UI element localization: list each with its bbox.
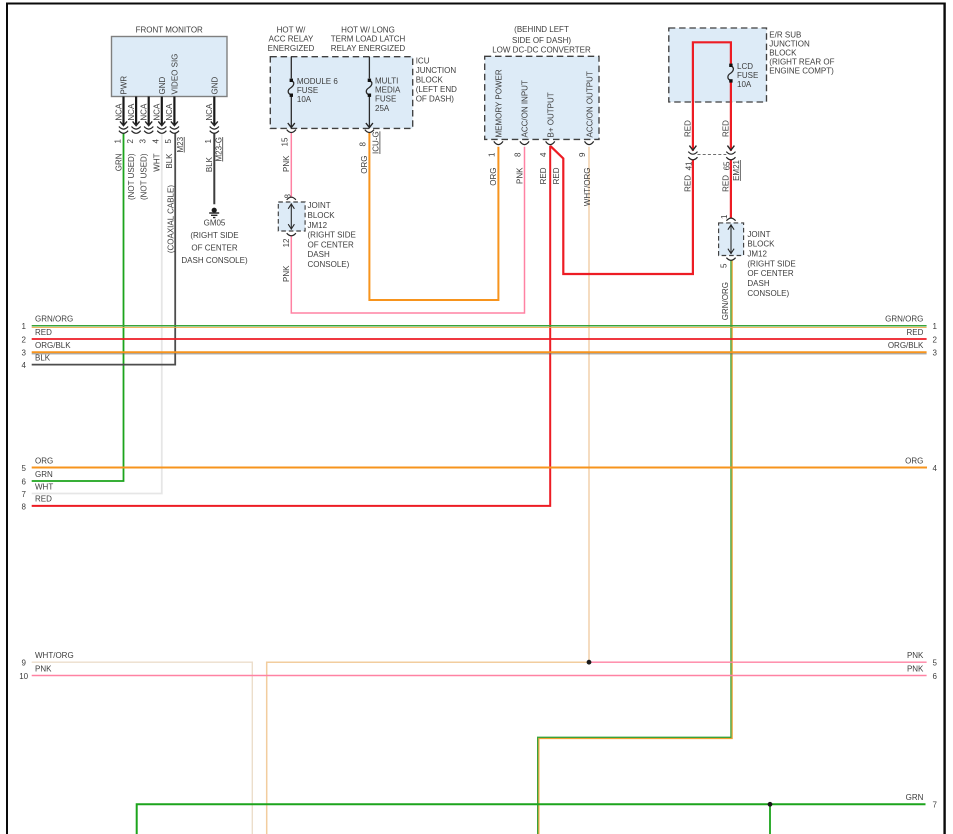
svg-text:NCA: NCA [205,103,214,121]
svg-text:FUSE: FUSE [375,95,396,104]
svg-text:4: 4 [933,464,938,473]
svg-text:WHT: WHT [153,153,162,171]
svg-text:PNK: PNK [35,664,52,673]
svg-text:10A: 10A [297,95,312,104]
svg-text:GRN: GRN [114,153,123,171]
svg-text:BLK: BLK [205,156,214,172]
svg-text:ICU-G: ICU-G [372,131,381,154]
svg-text:3: 3 [933,349,938,358]
svg-text:(BEHIND LEFT: (BEHIND LEFT [514,25,569,34]
svg-text:BLK: BLK [35,353,51,362]
svg-text:12: 12 [282,238,291,247]
svg-text:FUSE: FUSE [737,71,758,80]
svg-text:FUSE: FUSE [297,86,318,95]
svg-text:(NOT USED): (NOT USED) [127,153,136,200]
svg-text:2: 2 [21,335,26,344]
svg-text:E/R SUB: E/R SUB [769,31,801,40]
svg-text:GRN/ORG: GRN/ORG [35,315,73,324]
svg-text:BLK: BLK [165,153,174,169]
svg-text:WHT/ORG: WHT/ORG [583,168,592,207]
svg-text:ORG: ORG [35,456,53,465]
svg-text:MEMORY POWER: MEMORY POWER [495,69,504,137]
svg-text:9: 9 [578,152,587,157]
svg-text:RED: RED [35,328,52,337]
svg-text:PNK: PNK [907,664,924,673]
svg-text:OF CENTER: OF CENTER [308,240,354,249]
svg-text:PNK: PNK [907,651,924,660]
svg-text:JUNCTION: JUNCTION [416,66,457,75]
svg-text:8: 8 [283,194,292,199]
svg-text:JOINT: JOINT [308,201,331,210]
svg-text:6: 6 [21,477,26,486]
svg-text:RED: RED [684,120,693,137]
svg-text:JM12: JM12 [308,221,328,230]
svg-text:9: 9 [21,659,26,668]
svg-text:NCA: NCA [153,103,162,121]
svg-text:M23-G: M23-G [214,137,223,161]
svg-text:ENGINE COMPT): ENGINE COMPT) [769,67,834,76]
svg-text:ENERGIZED: ENERGIZED [268,44,315,53]
svg-text:5: 5 [21,464,26,473]
svg-text:RED: RED [684,175,693,192]
svg-text:JM12: JM12 [747,250,767,259]
svg-text:NCA: NCA [114,103,123,121]
svg-text:ACC RELAY: ACC RELAY [269,35,314,44]
svg-text:JOINT: JOINT [747,230,770,239]
svg-text:GRN: GRN [35,470,53,479]
svg-text:M23: M23 [176,136,185,152]
svg-text:GRN/ORG: GRN/ORG [721,282,730,320]
svg-text:7: 7 [933,801,938,810]
svg-text:4: 4 [152,139,161,144]
svg-text:ORG: ORG [489,168,498,186]
svg-text:NCA: NCA [127,103,136,121]
svg-text:NCA: NCA [140,103,149,121]
svg-text:WHT: WHT [35,482,53,491]
svg-text:PNK: PNK [282,155,291,172]
svg-text:LOW DC-DC CONVERTER: LOW DC-DC CONVERTER [492,45,591,54]
svg-text:1: 1 [487,152,496,157]
svg-text:1: 1 [113,139,122,144]
svg-text:1: 1 [21,322,26,331]
svg-text:5: 5 [164,139,173,144]
svg-text:RED: RED [539,167,548,184]
svg-text:3: 3 [21,349,26,358]
svg-text:LCD: LCD [737,62,753,71]
svg-text:GND: GND [211,77,220,95]
svg-text:ORG: ORG [905,456,923,465]
svg-text:HOT W/: HOT W/ [277,26,307,35]
svg-text:DASH: DASH [308,250,330,259]
svg-text:MODULE 6: MODULE 6 [297,77,338,86]
svg-text:MEDIA: MEDIA [375,86,401,95]
svg-text:GM05: GM05 [204,219,226,228]
svg-text:PWR: PWR [120,76,129,95]
svg-text:ORG: ORG [360,156,369,174]
svg-text:8: 8 [358,142,367,147]
svg-text:OF DASH): OF DASH) [416,94,455,103]
svg-text:GND: GND [158,77,167,95]
svg-text:GRN/ORG: GRN/ORG [885,315,923,324]
svg-text:BLOCK: BLOCK [416,75,444,84]
svg-text:(RIGHT REAR OF: (RIGHT REAR OF [769,58,834,67]
svg-text:RED: RED [35,495,52,504]
svg-text:4: 4 [539,152,548,157]
svg-text:(LEFT END: (LEFT END [416,85,457,94]
svg-text:HOT W/ LONG: HOT W/ LONG [341,26,395,35]
svg-text:ICU: ICU [416,56,430,65]
svg-text:(RIGHT SIDE: (RIGHT SIDE [747,259,795,268]
svg-text:4: 4 [21,361,26,370]
svg-text:PNK: PNK [282,265,291,282]
svg-text:1: 1 [720,214,729,219]
svg-text:(RIGHT SIDE: (RIGHT SIDE [308,231,356,240]
svg-text:10: 10 [19,672,28,681]
svg-text:65: 65 [722,161,731,170]
svg-text:3: 3 [139,139,148,144]
svg-text:PNK: PNK [515,167,524,184]
svg-text:(COAXIAL CABLE): (COAXIAL CABLE) [167,185,176,254]
svg-text:8: 8 [21,502,26,511]
svg-text:TERM LOAD LATCH: TERM LOAD LATCH [331,35,406,44]
svg-text:JUNCTION: JUNCTION [769,40,810,49]
svg-text:ORG/BLK: ORG/BLK [35,341,71,350]
svg-text:25A: 25A [375,104,390,113]
svg-text:WHT/ORG: WHT/ORG [35,651,74,660]
svg-text:ACC/ON INPUT: ACC/ON INPUT [521,80,530,137]
svg-text:DASH: DASH [747,279,769,288]
svg-text:41: 41 [684,161,693,170]
svg-text:1: 1 [204,139,213,144]
svg-text:FRONT MONITOR: FRONT MONITOR [136,25,203,34]
svg-text:DASH CONSOLE): DASH CONSOLE) [181,256,248,265]
svg-text:RELAY ENERGIZED: RELAY ENERGIZED [331,44,406,53]
svg-text:CONSOLE): CONSOLE) [308,260,350,269]
svg-text:ORG/BLK: ORG/BLK [888,341,924,350]
svg-text:1: 1 [933,322,938,331]
svg-text:OF CENTER: OF CENTER [747,269,793,278]
svg-text:ACC/ON OUTPUT: ACC/ON OUTPUT [585,71,594,137]
svg-text:MULTI: MULTI [375,76,398,85]
svg-text:2: 2 [933,335,938,344]
svg-text:BLOCK: BLOCK [747,240,775,249]
svg-text:(NOT USED): (NOT USED) [140,153,149,200]
svg-text:5: 5 [933,659,938,668]
svg-text:7: 7 [21,490,26,499]
svg-text:RED: RED [722,175,731,192]
svg-text:VIDEO SIG: VIDEO SIG [171,54,180,95]
svg-text:BLOCK: BLOCK [308,211,336,220]
svg-text:OF CENTER: OF CENTER [191,244,237,253]
svg-text:2: 2 [126,139,135,144]
svg-text:RED: RED [552,167,561,184]
svg-text:NCA: NCA [165,103,174,121]
svg-text:RED: RED [907,328,924,337]
svg-text:8: 8 [514,152,523,157]
svg-text:15: 15 [280,137,289,146]
svg-text:RED: RED [722,120,731,137]
svg-text:10A: 10A [737,80,752,89]
svg-text:6: 6 [933,672,938,681]
svg-text:EM21: EM21 [732,159,741,180]
svg-text:B+ OUTPUT: B+ OUTPUT [546,92,555,137]
svg-text:(RIGHT SIDE: (RIGHT SIDE [190,231,238,240]
svg-text:SIDE OF DASH): SIDE OF DASH) [512,36,571,45]
svg-text:5: 5 [720,263,729,268]
svg-text:BLOCK: BLOCK [769,49,797,58]
svg-text:CONSOLE): CONSOLE) [747,289,789,298]
svg-text:GRN: GRN [906,793,924,802]
